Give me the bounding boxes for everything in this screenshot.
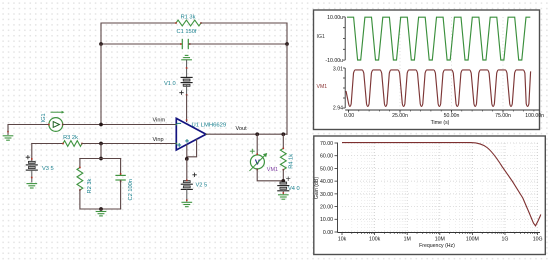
ground below tank — [96, 209, 106, 216]
transient plot window — [314, 10, 540, 130]
svg-text:20.00: 20.00 — [320, 204, 333, 210]
svg-text:75.00n: 75.00n — [495, 113, 511, 119]
resistor R3 — [62, 141, 83, 147]
wire IG1 to opamp minus (net Vinm) — [63, 124, 176, 126]
trace gain curve — [342, 143, 541, 226]
wire Vout down to R4 — [282, 134, 284, 148]
wire R1 to right node — [201, 23, 287, 44]
trace VM1 maroon — [346, 70, 531, 107]
svg-text:R3 2k: R3 2k — [63, 135, 78, 141]
svg-text:V1 0: V1 0 — [164, 81, 176, 87]
svg-text:IG1: IG1 — [41, 113, 47, 122]
resistor R2 — [77, 167, 83, 191]
svg-text:25.00n: 25.00n — [392, 113, 408, 119]
wire V3 to R3 — [32, 143, 63, 145]
wire tank top rail — [80, 158, 121, 160]
svg-text:30.00: 30.00 — [320, 192, 333, 198]
wire opamp bottom pin A — [186, 145, 188, 159]
wire R3 to opamp plus (net Vinp) — [82, 143, 176, 145]
svg-text:Vout: Vout — [236, 126, 248, 132]
svg-text:Time (s): Time (s) — [431, 120, 450, 126]
transient plot axes — [317, 15, 545, 126]
capacitor C2 — [116, 173, 125, 182]
voltmeter VM1 — [250, 149, 267, 170]
wire Vinp to RC tank — [100, 144, 102, 159]
svg-text:10.00: 10.00 — [320, 217, 333, 223]
battery V4 — [278, 177, 290, 194]
wire opamp bottom pin B — [187, 140, 197, 157]
node opamp supply junction — [185, 157, 189, 161]
svg-text:60.00: 60.00 — [320, 154, 333, 160]
node junction left of C1 — [99, 42, 103, 46]
wire V1 to opamp vplus pin — [186, 95, 188, 122]
svg-text:0.00: 0.00 — [344, 113, 354, 119]
wire voltmeter bottom to R4 bottom — [257, 169, 283, 181]
resistor R4 — [280, 148, 286, 171]
op-amp U1 LMH6629 — [176, 118, 208, 150]
AC plot grid — [342, 143, 538, 232]
svg-text:10G: 10G — [533, 237, 543, 243]
svg-text:R2 3k: R2 3k — [87, 178, 93, 193]
svg-text:40.00: 40.00 — [320, 179, 333, 185]
svg-text:Frequency (Hz): Frequency (Hz) — [419, 243, 455, 249]
svg-text:R1 3k: R1 3k — [181, 14, 196, 20]
svg-text:100k: 100k — [369, 237, 381, 243]
wire right feedback vertical to Vout — [286, 44, 288, 134]
svg-text:100M: 100M — [466, 237, 479, 243]
wire R2 bottom lead — [80, 190, 121, 209]
node R4 V4 VM1 junction — [281, 179, 285, 183]
svg-text:1M: 1M — [404, 237, 411, 243]
wire opamp output (net Vout) — [206, 133, 287, 135]
wire C1 right — [189, 43, 287, 45]
wire C2 top lead — [120, 159, 122, 175]
svg-text:V4 0: V4 0 — [288, 186, 300, 192]
current source IG1 — [48, 111, 64, 132]
svg-text:10k: 10k — [338, 237, 347, 243]
svg-text:3.01: 3.01 — [333, 66, 343, 72]
svg-text:Vinp: Vinp — [153, 137, 164, 143]
svg-text:VM1: VM1 — [317, 84, 328, 90]
svg-text:50.00: 50.00 — [320, 166, 333, 172]
svg-text:100.00n: 100.00n — [525, 113, 544, 119]
wire R4 to V4 — [282, 170, 284, 183]
svg-text:10M: 10M — [435, 237, 445, 243]
wire C2 bottom lead — [120, 181, 122, 209]
svg-text:2.94: 2.94 — [333, 106, 343, 112]
battery V2 — [181, 173, 196, 201]
node Vinm junction — [99, 123, 103, 127]
svg-text:10.00u: 10.00u — [327, 15, 343, 21]
AC plot axes — [314, 141, 543, 249]
ground below V3 — [27, 183, 37, 185]
wire ground to IG1 — [8, 125, 49, 132]
battery V1 — [180, 77, 192, 95]
wire junction to V2 — [186, 159, 188, 181]
svg-text:0.00: 0.00 — [323, 230, 333, 236]
ground input left — [3, 131, 13, 141]
wire feedback left vertical to Vinm — [100, 44, 102, 125]
svg-text:U1 LMH6629: U1 LMH6629 — [192, 122, 227, 128]
wire R2 top lead — [79, 159, 81, 168]
svg-text:70.00: 70.00 — [320, 141, 333, 147]
node Vout to R4 junction — [281, 132, 285, 136]
svg-text:V2 5: V2 5 — [196, 183, 208, 189]
trace IG1 green — [347, 17, 530, 60]
ground above V1 (inverted) — [182, 55, 192, 77]
node tank top junction — [99, 157, 103, 161]
ground below V2 — [182, 201, 192, 203]
capacitor C1 — [180, 39, 191, 48]
wire feedback top from left node to R1 — [101, 23, 176, 44]
svg-text:50.00n: 50.00n — [444, 113, 460, 119]
ground below V4 — [279, 194, 289, 196]
resistor R1 — [175, 20, 202, 26]
node tank bottom junction — [99, 207, 103, 211]
node junction right of C1 — [285, 42, 289, 46]
svg-text:VM1: VM1 — [267, 167, 278, 173]
svg-text:IG1: IG1 — [317, 34, 325, 40]
wire C1 left — [101, 43, 182, 45]
svg-text:C2 100n: C2 100n — [128, 179, 134, 201]
wire Vout down to voltmeter — [256, 134, 258, 155]
node Vout to VM1 junction — [255, 132, 259, 136]
AC gain plot window — [314, 136, 546, 255]
svg-text:-10.00u: -10.00u — [325, 58, 343, 64]
svg-text:Vinm: Vinm — [153, 118, 166, 124]
svg-text:C1 150f: C1 150f — [177, 29, 197, 35]
battery V3 — [26, 144, 37, 183]
svg-text:R4 1k: R4 1k — [289, 154, 295, 169]
node Vinp junction — [99, 142, 103, 146]
svg-text:1G: 1G — [502, 237, 509, 243]
svg-text:V3 5: V3 5 — [42, 166, 54, 172]
svg-text:Gain (dB): Gain (dB) — [314, 177, 320, 199]
